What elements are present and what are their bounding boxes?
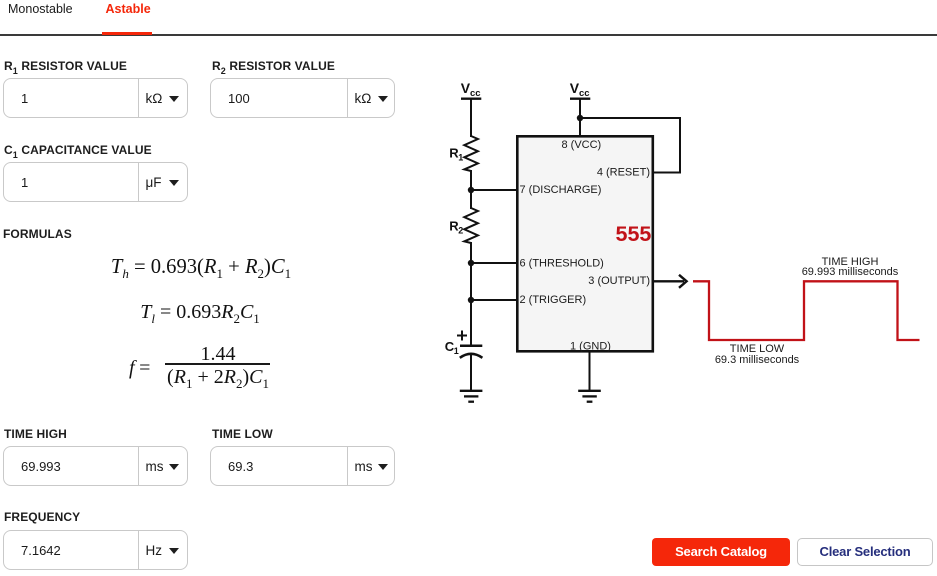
FREQUENCY input (4, 510, 80, 524)
wire threshold to trigger node (470, 263, 472, 300)
svg-text:6 (THRESHOLD): 6 (THRESHOLD) (520, 257, 604, 269)
TIME LOW input (212, 427, 273, 441)
label C1 (445, 339, 459, 356)
output waveform (693, 281, 920, 340)
wire node to R2 (470, 190, 472, 209)
wire into pin 4 (653, 172, 681, 174)
label TIME LOW waveform (687, 344, 827, 366)
power Vcc left rail symbol (461, 80, 481, 99)
svg-text:555: 555 (616, 222, 652, 246)
capacitor C1 top plate (460, 345, 482, 348)
wire Vcc to node (579, 99, 581, 118)
label R2 (449, 219, 463, 236)
wire reset branch down (679, 117, 681, 173)
svg-text:1: 1 (454, 346, 459, 356)
svg-text:7 (DISCHARGE): 7 (DISCHARGE) (520, 184, 602, 196)
label R1 (449, 146, 463, 163)
svg-text:1 (GND): 1 (GND) (570, 340, 611, 352)
svg-text:1: 1 (458, 153, 463, 163)
svg-text:3 (OUTPUT): 3 (OUTPUT) (588, 275, 650, 287)
wire node to pin 2 (471, 299, 517, 301)
wire R2 to threshold node (470, 242, 472, 263)
ground symbol (IC) (578, 391, 601, 402)
power Vcc left bar (461, 98, 481, 100)
Clear Selection button (797, 538, 933, 566)
junction node DISCHARGE (468, 187, 474, 193)
svg-text:cc: cc (579, 88, 590, 99)
Search Catalog button (652, 538, 790, 566)
wire node to pin 7 (471, 189, 517, 191)
tab bar (8, 2, 73, 16)
resistor R2 (464, 208, 478, 243)
FORMULAS (3, 227, 72, 241)
svg-text:8 (VCC): 8 (VCC) (562, 139, 602, 151)
junction Vcc node (577, 115, 583, 121)
wire R1 to discharge node (470, 170, 472, 190)
R2 input (212, 59, 335, 73)
wire node to reset branch (580, 117, 680, 119)
wire pin 3 output (653, 280, 684, 282)
svg-text:4 (RESET): 4 (RESET) (597, 167, 650, 179)
IC U1 555 body (517, 136, 653, 351)
resistor R1 (464, 136, 478, 171)
wire node to pin 6 (471, 262, 517, 264)
capacitor C1 curved plate (460, 354, 483, 358)
svg-text:cc: cc (470, 88, 481, 99)
wire node to pin 8 (579, 118, 581, 136)
TIME HIGH input (4, 427, 67, 441)
wire C1 to ground (470, 353, 472, 390)
power Vcc right bar (570, 98, 590, 100)
R1 input (4, 59, 127, 73)
label TIME HIGH waveform (780, 257, 920, 278)
wire trigger node to C1 (470, 300, 472, 345)
wire Vcc to R1 (470, 99, 472, 137)
junction node TRIGGER (468, 297, 474, 303)
polarity plus sign (457, 331, 467, 341)
ground symbol (C1) (460, 391, 483, 402)
arrowhead output (679, 275, 687, 288)
svg-text:2: 2 (458, 226, 463, 236)
junction node THRESHOLD (468, 260, 474, 266)
power Vcc right symbol (570, 80, 590, 99)
wire pin 1 to ground (589, 351, 591, 390)
svg-text:2 (TRIGGER): 2 (TRIGGER) (520, 294, 587, 306)
C1 input (4, 143, 152, 157)
